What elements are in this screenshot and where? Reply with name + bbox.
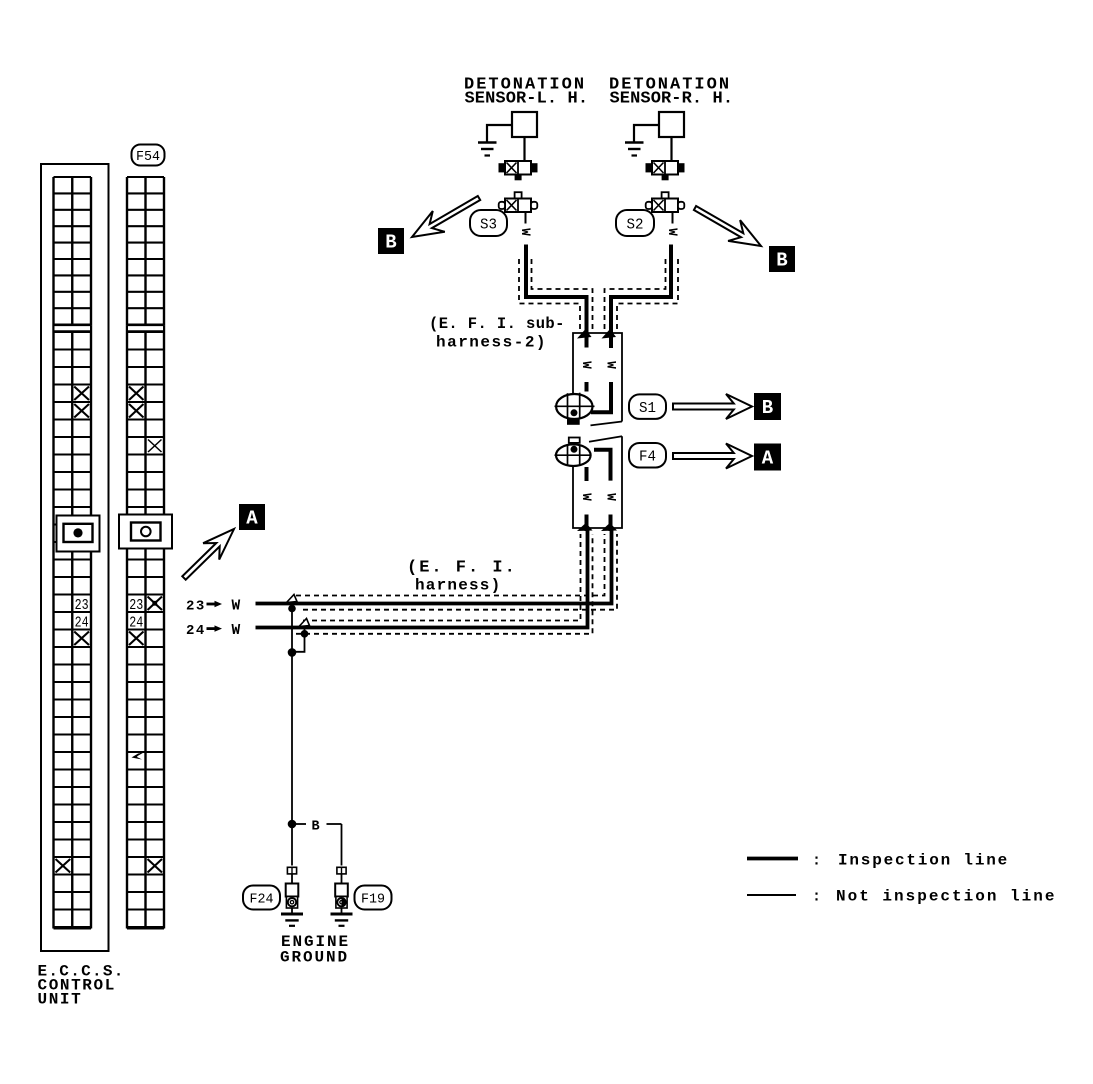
svg-text:W: W — [232, 623, 241, 639]
ground wire left — [291, 824, 293, 866]
inspection wire from S3 connector — [526, 245, 587, 348]
ground symbol F19 — [331, 913, 353, 916]
S3 oval — [470, 210, 507, 236]
bolt terminal F24 — [286, 884, 299, 897]
F4 oval — [629, 443, 666, 468]
dashed outline wire24 top — [303, 534, 581, 621]
splice bead F19 — [337, 867, 346, 874]
wire stubs from F4 — [585, 467, 589, 481]
arrow S1 to B — [673, 394, 752, 419]
legend not inspection line — [747, 894, 796, 896]
sensor-side connector R (solid tabs) — [652, 161, 678, 175]
junction dot below 24 — [301, 630, 309, 638]
sensor-side connector L (solid tabs) — [505, 161, 531, 175]
gap band left grid — [53, 325, 93, 331]
A square left — [239, 504, 265, 530]
F54 oval — [132, 145, 165, 166]
legend inspection line — [747, 857, 798, 861]
exit arrowhead left — [577, 523, 593, 531]
svg-text:W: W — [604, 493, 618, 501]
entry arrowhead left — [577, 329, 592, 339]
E.C.C.S. control unit box — [41, 164, 109, 951]
key box right (open circle) — [119, 515, 172, 549]
svg-text:F19: F19 — [361, 892, 385, 908]
ground symbol F24 — [281, 913, 303, 916]
ground symbol L — [478, 141, 497, 144]
svg-text:(E. F. I.: (E. F. I. — [407, 559, 517, 578]
svg-text:A: A — [246, 508, 258, 530]
B square mid — [754, 393, 781, 420]
arrow to A (grids) — [182, 529, 234, 580]
dashed harness outline right outer — [617, 259, 678, 333]
svg-text:24: 24 — [186, 623, 206, 639]
A square mid — [754, 444, 781, 471]
F54 connector grid (right) — [126, 177, 128, 929]
svg-text:23: 23 — [186, 598, 206, 614]
junction tick wire23 — [287, 595, 298, 603]
dashed outline wire23 bottom — [303, 534, 617, 610]
harness-side connector R (open tabs) — [662, 192, 669, 198]
wire segment F24 — [291, 874, 293, 884]
dashed outline wire24 bottom — [296, 534, 593, 634]
wire sensor to connector R — [670, 137, 672, 161]
ground branch wire — [291, 604, 293, 825]
bolt terminal F19 — [335, 884, 348, 897]
svg-text:F54: F54 — [136, 149, 160, 165]
dashed outline wire23 top — [296, 534, 605, 596]
svg-text:SENSOR-R. H.: SENSOR-R. H. — [610, 90, 734, 109]
wire stub below connector L — [525, 212, 527, 224]
svg-text:W: W — [579, 493, 593, 501]
lower harness block outline — [573, 436, 622, 528]
funnel line S1 — [591, 422, 623, 426]
wire to ground R — [634, 125, 659, 142]
junction dot main — [288, 648, 297, 657]
svg-text:SENSOR-L. H.: SENSOR-L. H. — [465, 90, 589, 109]
S1 oval — [629, 394, 666, 419]
splice bead F24 — [287, 867, 296, 874]
svg-text:Inspection line: Inspection line — [838, 852, 1009, 870]
S2 oval — [616, 210, 654, 236]
wire stubs to bottom edge — [585, 515, 589, 532]
inspection wire from S2 connector — [611, 245, 671, 349]
junction dot below 23 — [288, 605, 296, 613]
svg-text:24: 24 — [75, 614, 89, 631]
F4 round connector — [569, 438, 580, 443]
F24 oval — [243, 886, 280, 910]
svg-text:B: B — [762, 397, 773, 419]
wire stubs to S1 connector — [585, 382, 589, 392]
arrow to B (left) — [412, 196, 480, 237]
wire to ground F24 — [291, 908, 293, 913]
sensor box L — [512, 112, 537, 137]
wire to ground F19 — [341, 908, 343, 913]
sub-harness-2 block outline — [573, 333, 622, 422]
wire B label segment — [296, 823, 306, 825]
svg-text:harness): harness) — [415, 577, 501, 595]
svg-text:23: 23 — [129, 597, 143, 614]
svg-text:(E. F. I. sub-: (E. F. I. sub- — [429, 315, 565, 333]
key box left (connector keying, filled dot) — [57, 516, 100, 552]
svg-text:F4: F4 — [639, 449, 656, 466]
svg-text:23: 23 — [75, 597, 89, 614]
dashed harness outline left inner — [532, 259, 593, 333]
svg-text:S1: S1 — [639, 400, 656, 417]
svg-text:harness-2): harness-2) — [436, 334, 547, 352]
B square left — [378, 228, 404, 254]
inspection wire to terminal 23 — [256, 528, 612, 604]
junction tick wire24 — [299, 619, 310, 627]
dashed harness outline right inner — [605, 259, 666, 333]
svg-text::: : — [812, 853, 821, 870]
svg-text:B: B — [776, 250, 787, 272]
svg-text:W: W — [579, 361, 593, 369]
svg-text:W: W — [665, 228, 679, 236]
exit arrowhead right — [601, 523, 617, 531]
entry arrowhead right — [602, 329, 617, 339]
wire sensor to connector L — [523, 137, 525, 161]
ground wire right — [341, 824, 343, 866]
svg-text:F24: F24 — [250, 892, 274, 908]
svg-text:B: B — [385, 232, 396, 254]
B square right — [769, 246, 795, 272]
svg-text:24: 24 — [129, 614, 143, 631]
svg-text:UNIT: UNIT — [38, 991, 83, 1009]
svg-text:Not inspection line: Not inspection line — [836, 888, 1056, 906]
arrow to B (right) — [694, 206, 761, 246]
F19 oval — [355, 886, 392, 910]
ground symbol R — [625, 141, 644, 144]
dashed harness outline left outer — [519, 259, 580, 333]
svg-text::: : — [812, 889, 821, 906]
arrow F4 to A — [673, 444, 752, 469]
S1 round connector — [556, 394, 592, 419]
svg-text:S2: S2 — [627, 216, 644, 233]
svg-text:S3: S3 — [480, 216, 497, 233]
sensor box R — [659, 112, 684, 137]
wire segment F19 — [341, 874, 343, 884]
B junction dot — [288, 820, 297, 829]
funnel line F4 — [589, 436, 622, 442]
svg-text:B: B — [312, 820, 320, 835]
svg-text:GROUND: GROUND — [280, 949, 349, 967]
inspection wire to terminal 24 — [256, 528, 588, 628]
ECCS connector grid (left) — [52, 177, 54, 929]
svg-text:W: W — [518, 228, 532, 236]
svg-text:W: W — [604, 361, 618, 369]
svg-text:A: A — [762, 448, 774, 470]
harness-side connector L (open tabs) — [515, 192, 522, 198]
wire to ground L — [487, 125, 512, 142]
wire stub below connector R — [672, 212, 674, 224]
svg-text:W: W — [232, 599, 241, 615]
